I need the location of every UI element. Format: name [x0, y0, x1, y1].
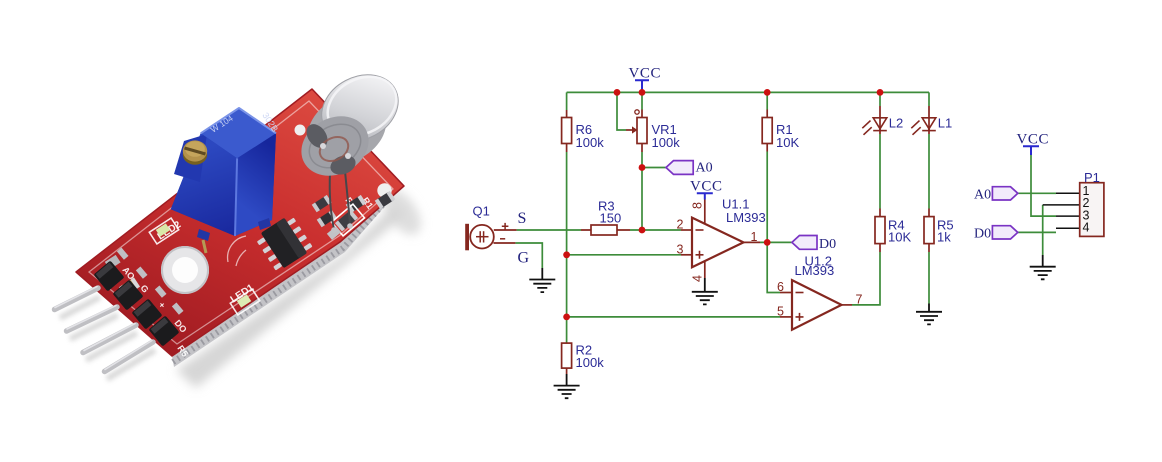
svg-text:2: 2 — [677, 218, 684, 232]
svg-text:6: 6 — [777, 280, 784, 294]
svg-text:VCC: VCC — [1017, 132, 1050, 148]
svg-text:S: S — [518, 210, 527, 227]
svg-text:8: 8 — [691, 202, 705, 209]
svg-text:100k: 100k — [576, 135, 605, 150]
svg-text:100k: 100k — [652, 135, 681, 150]
svg-text:1k: 1k — [937, 230, 951, 245]
svg-text:10K: 10K — [776, 135, 799, 150]
svg-text:VCC: VCC — [690, 179, 723, 195]
svg-text:A0: A0 — [696, 161, 713, 176]
svg-text:10K: 10K — [888, 230, 911, 245]
svg-text:P1: P1 — [1084, 170, 1100, 185]
svg-text:1: 1 — [751, 230, 758, 244]
svg-text:4: 4 — [1083, 221, 1090, 235]
svg-text:4: 4 — [691, 275, 705, 282]
svg-text:D0: D0 — [974, 227, 991, 242]
svg-text:D0: D0 — [819, 237, 836, 252]
svg-text:7: 7 — [856, 292, 863, 306]
svg-text:A0: A0 — [974, 188, 991, 203]
svg-text:5: 5 — [777, 304, 784, 318]
svg-text:L2: L2 — [889, 116, 903, 131]
svg-text:3: 3 — [677, 242, 684, 256]
svg-text:G: G — [518, 250, 530, 267]
svg-text:L1: L1 — [938, 116, 952, 131]
svg-text:VCC: VCC — [629, 66, 662, 82]
svg-text:100k: 100k — [576, 355, 605, 370]
svg-text:LM393: LM393 — [795, 263, 835, 278]
svg-text:150: 150 — [600, 211, 622, 226]
svg-text:Q1: Q1 — [473, 204, 490, 219]
svg-text:LM393: LM393 — [726, 210, 766, 225]
